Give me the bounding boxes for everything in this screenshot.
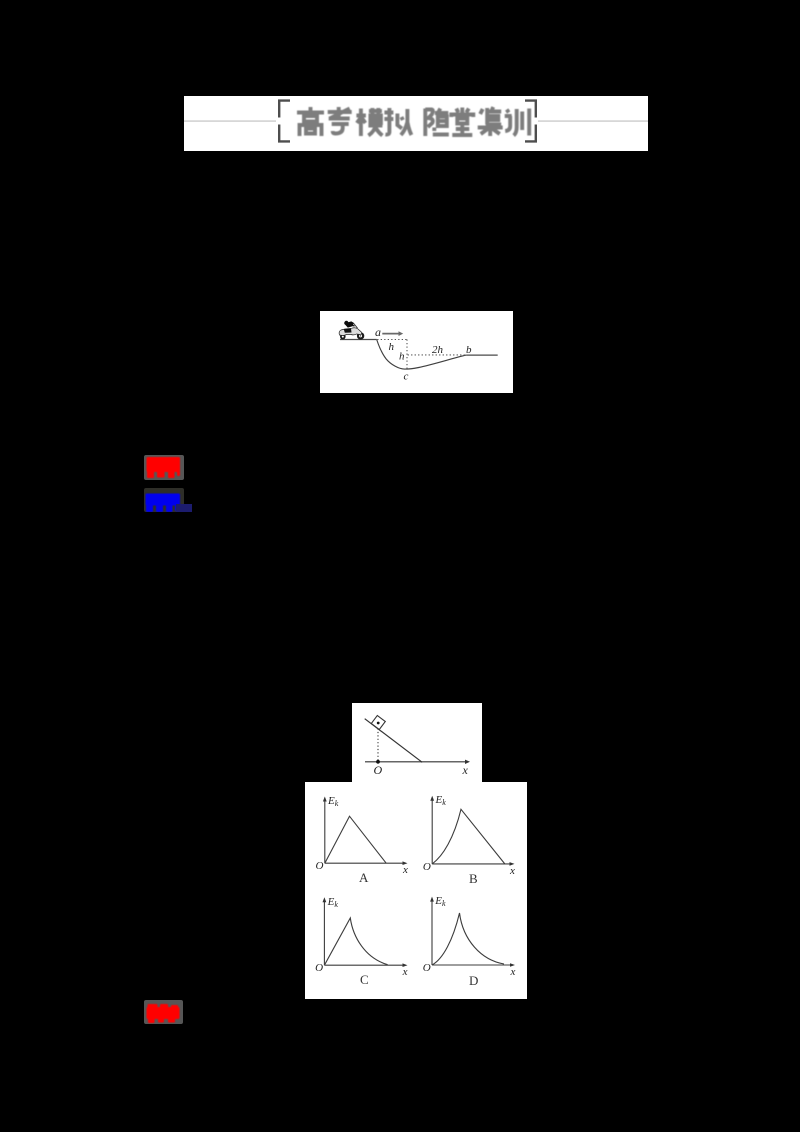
right bracket xyxy=(525,101,536,142)
red badge 2 (bottom) xyxy=(144,1000,183,1024)
graph D curve xyxy=(432,913,504,965)
right road line xyxy=(466,354,498,356)
dot inside block xyxy=(377,722,380,725)
block (rotated square) xyxy=(371,715,385,729)
rear wheel xyxy=(340,334,346,340)
rider torso leaning forward xyxy=(345,321,354,327)
svg-text:h: h xyxy=(399,351,405,363)
svg-text:D: D xyxy=(469,973,478,988)
figure: block on incline xyxy=(352,703,482,783)
svg-text:O: O xyxy=(423,861,431,873)
svg-text:O: O xyxy=(423,962,431,974)
title glyphs 高考模拟 随堂集训 xyxy=(297,107,529,136)
graph C curve xyxy=(324,918,387,965)
rider helmet xyxy=(344,321,348,325)
incline line xyxy=(365,719,423,763)
svg-text:C: C xyxy=(360,972,369,987)
svg-text:h: h xyxy=(389,341,395,353)
dotted vertical line xyxy=(377,729,379,762)
glyph gao xyxy=(297,107,324,136)
svg-text:A: A xyxy=(359,870,369,885)
left bracket xyxy=(279,101,290,142)
front wheel xyxy=(357,332,364,339)
svg-text:Ek: Ek xyxy=(327,896,339,909)
svg-text:Ek: Ek xyxy=(327,795,339,808)
svg-text:x: x xyxy=(510,966,516,978)
glyph sui xyxy=(425,109,449,137)
graph A curve (triangle) xyxy=(325,816,386,863)
figure: motorcycle over dip xyxy=(320,311,513,393)
acceleration arrow xyxy=(382,333,399,335)
glyph mo xyxy=(356,108,382,136)
svg-text:O: O xyxy=(374,763,383,777)
glyph kao xyxy=(328,107,352,134)
x axis xyxy=(365,761,466,763)
svg-text:O: O xyxy=(315,962,323,974)
svg-text:Ek: Ek xyxy=(434,895,446,908)
figure: four Ek-x graphs xyxy=(305,782,527,999)
svg-text:x: x xyxy=(402,966,408,978)
glyph xun xyxy=(505,109,530,136)
left road line xyxy=(340,339,377,341)
bike body xyxy=(339,328,361,336)
svg-text:x: x xyxy=(509,865,515,877)
svg-text:x: x xyxy=(402,864,408,876)
svg-text:Ek: Ek xyxy=(435,794,447,807)
dip curve from a to c to b xyxy=(377,340,466,370)
glyph tang xyxy=(451,108,473,136)
dark seat / engine block xyxy=(344,328,352,332)
svg-text:O: O xyxy=(316,860,324,872)
svg-text:a: a xyxy=(375,325,381,339)
blue badge (analysis marker) xyxy=(144,488,184,512)
glyph ji xyxy=(478,107,503,136)
dotted horizontal 2h line xyxy=(408,354,465,356)
svg-text:b: b xyxy=(466,344,472,356)
dotted vertical line xyxy=(406,340,408,369)
left rule xyxy=(184,120,276,122)
graph A axes xyxy=(324,801,326,864)
dotted top level line h xyxy=(377,339,407,341)
graph B curve xyxy=(432,809,505,864)
right rule xyxy=(538,120,648,122)
rider arm xyxy=(350,325,355,326)
header band xyxy=(184,96,648,151)
navy text fragment after blue badge xyxy=(176,504,192,512)
arrowheads xyxy=(323,797,327,802)
svg-text:x: x xyxy=(462,763,469,777)
windshield xyxy=(354,324,358,329)
svg-text:B: B xyxy=(469,871,478,886)
origin dot xyxy=(376,760,380,764)
motorcycle with rider xyxy=(339,321,364,340)
svg-text:c: c xyxy=(404,371,409,383)
glyph ni xyxy=(384,108,411,135)
graph D axes xyxy=(431,901,433,965)
svg-text:2h: 2h xyxy=(432,344,444,356)
red badge 1 (answer marker) xyxy=(144,455,184,480)
graph C axes xyxy=(323,901,325,965)
graph B axes xyxy=(431,800,433,864)
